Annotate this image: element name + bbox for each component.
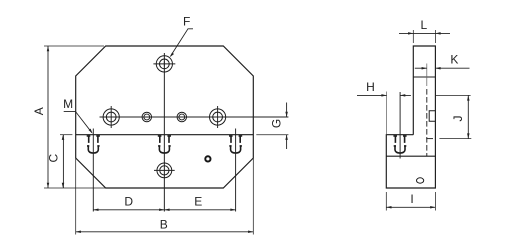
dim L extensions [413, 30, 435, 43]
svg-text:H: H [366, 80, 375, 94]
dim I line [386, 206, 435, 208]
svg-text:L: L [421, 18, 428, 32]
svg-text:D: D [124, 194, 133, 208]
step line across plate [76, 134, 254, 136]
dim K extension [426, 64, 428, 87]
side t-slot centerline [399, 92, 401, 159]
hole F circle [156, 56, 172, 72]
svg-text:B: B [160, 218, 168, 232]
dim J top extension [435, 94, 470, 96]
dim H lines + outside arrows [357, 94, 411, 96]
vertical centerline [163, 53, 165, 212]
bottom hole circle [157, 163, 172, 178]
small hole left [142, 112, 152, 122]
large hole right crosshair [215, 106, 220, 128]
svg-text:E: E [194, 194, 202, 208]
dim D/E line [93, 209, 235, 211]
hole F crosshair [153, 61, 175, 66]
svg-text:A: A [32, 107, 46, 115]
small hole right [177, 112, 187, 122]
t-slot clip 2 (center) [158, 135, 171, 153]
dim A extension top [44, 45, 104, 47]
dim L line + outside arrows [399, 32, 450, 34]
svg-text:J: J [451, 116, 465, 122]
dim B extensions [76, 157, 254, 235]
label F leader [171, 29, 193, 56]
dim H extension left [386, 92, 388, 135]
dim G extension bottom [256, 134, 288, 136]
dim J bottom extension [439, 138, 471, 140]
t-slot clip 3 [229, 135, 242, 153]
t-slot clip 1 [87, 135, 100, 153]
dim K long line [435, 67, 469, 69]
side view: hidden slot line (dashed) [426, 89, 428, 156]
dim A line [47, 46, 49, 188]
label M leader [64, 111, 92, 132]
svg-text:F: F [183, 14, 190, 28]
dim B line [76, 231, 254, 233]
t-slot 1 centerline [92, 129, 94, 212]
side view: inner step line [413, 76, 435, 78]
side view: notch on right edge [429, 111, 435, 122]
t-slot 3 centerline [235, 129, 237, 212]
svg-text:C: C [47, 154, 61, 163]
svg-text:K: K [450, 53, 458, 67]
dim C line [62, 135, 64, 188]
side view: hidden slot bottom dash [426, 138, 433, 140]
large hole right [210, 109, 226, 125]
side view t-slot clip [393, 135, 406, 153]
dim J line [467, 95, 469, 138]
large hole left [103, 109, 119, 125]
svg-text:G: G [270, 119, 284, 128]
side view: base top line [386, 155, 435, 157]
dim A extension bottom [44, 187, 106, 189]
small bold ring hole [205, 156, 210, 161]
svg-text:M: M [63, 97, 73, 111]
dim C extension top [60, 134, 72, 136]
plate outline (front view octagon) [76, 46, 254, 188]
bottom hole crosshair [154, 169, 175, 171]
side view: stem + base outline [386, 46, 435, 188]
side view ellipse hole [417, 178, 424, 183]
dim I extensions [386, 192, 435, 211]
large hole left crosshair [109, 106, 114, 128]
dim G line + outside arrows [286, 103, 288, 150]
row centerline [100, 116, 289, 118]
svg-text:I: I [410, 192, 413, 206]
dim K stub arrow [415, 67, 427, 69]
